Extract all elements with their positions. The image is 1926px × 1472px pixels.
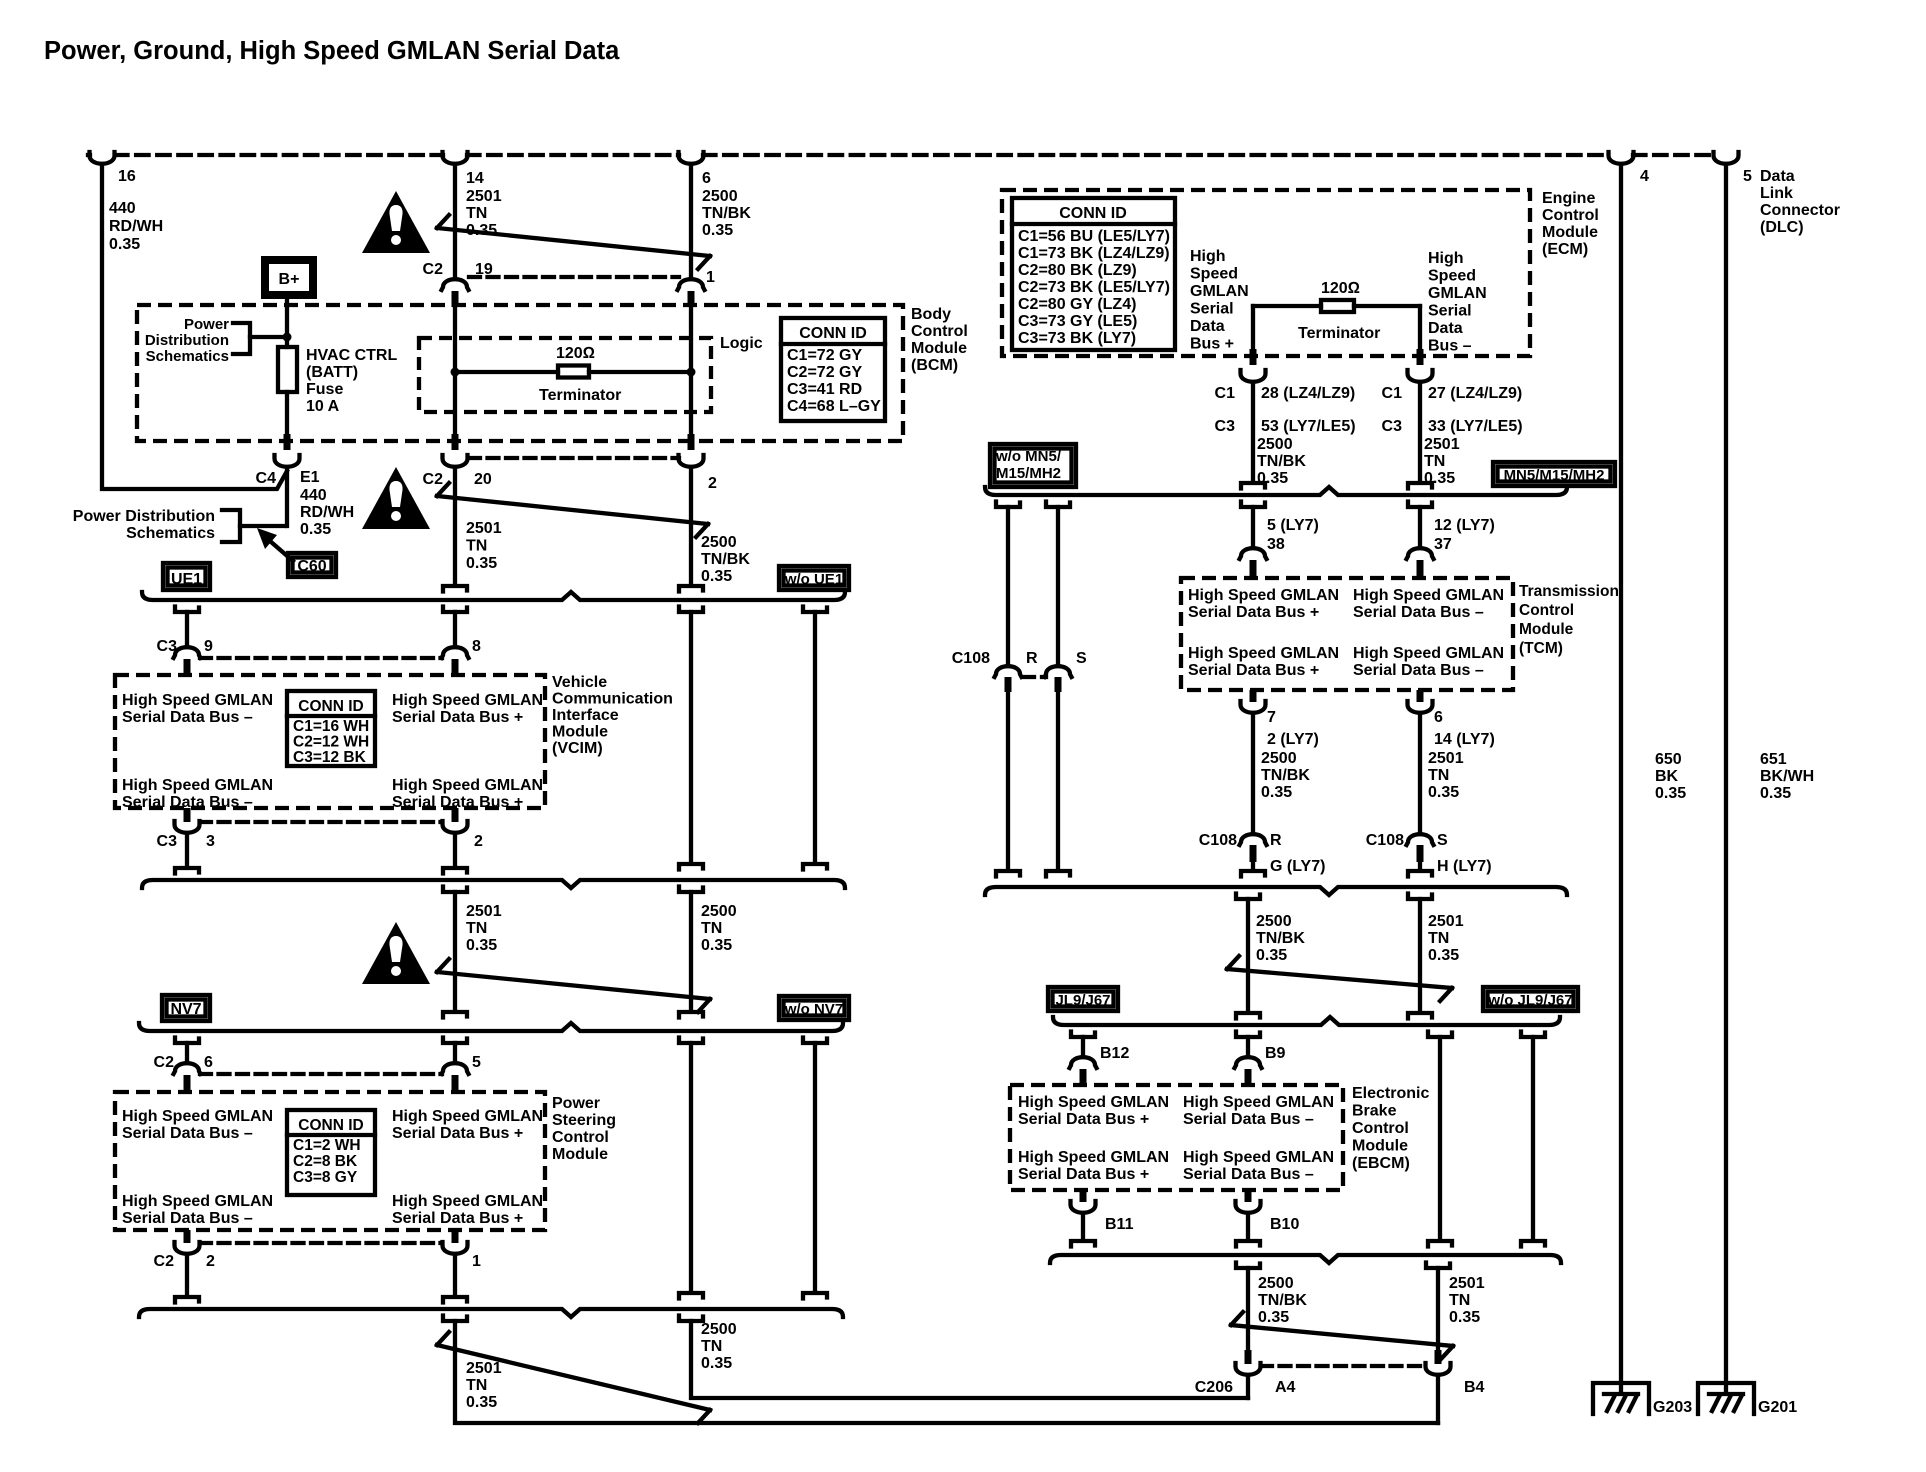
svg-text:0.35: 0.35: [1261, 784, 1292, 801]
svg-text:High Speed GMLAN: High Speed GMLAN: [122, 1193, 273, 1210]
svg-text:12 (LY7): 12 (LY7): [1434, 517, 1495, 534]
svg-text:C4: C4: [256, 470, 277, 487]
connector PSCM pin 1: [452, 1230, 459, 1243]
svg-text:Communication: Communication: [552, 691, 673, 708]
connector BCM C4/E1: [284, 434, 291, 450]
svg-text:Module: Module: [1352, 1138, 1408, 1155]
crossover arrow 2: [437, 483, 708, 537]
crossover arrow top (2501/2500 swap note): [437, 215, 710, 269]
svg-text:C2=72 GY: C2=72 GY: [787, 364, 862, 381]
svg-text:C3: C3: [157, 833, 178, 850]
svg-text:2501: 2501: [466, 903, 502, 920]
option box w/o UE1: [779, 566, 849, 590]
connector TCM pin 6: [1417, 690, 1424, 702]
svg-text:B10: B10: [1270, 1216, 1299, 1233]
wire B10 to bus: [1246, 1216, 1250, 1239]
connector BCM C2 pin 19: [442, 279, 469, 290]
svg-text:TN/BK: TN/BK: [1256, 930, 1305, 947]
svg-text:Bus +: Bus +: [1190, 336, 1234, 353]
svg-text:0.35: 0.35: [1428, 784, 1459, 801]
wire 2500 TN/BK pin2 to UE1 bus: [689, 470, 693, 582]
connector VCIM C3 pin 3: [184, 808, 191, 822]
svg-text:650: 650: [1655, 751, 1682, 768]
connector BCM pin 1: [678, 279, 705, 290]
connector PSCM C2 pin 6: [174, 1063, 201, 1074]
T-origin 2501 below EBCM bus: [1426, 1263, 1450, 1269]
svg-text:0.35: 0.35: [300, 521, 331, 538]
svg-text:C1=2 WH: C1=2 WH: [293, 1137, 361, 1154]
option box w/o NV7: [779, 996, 849, 1020]
svg-text:B9: B9: [1265, 1045, 1286, 1062]
svg-text:Module: Module: [552, 724, 608, 741]
wire pin1 to bus: [453, 1257, 457, 1293]
svg-text:Serial Data Bus –: Serial Data Bus –: [1353, 604, 1484, 621]
svg-text:BK: BK: [1655, 768, 1679, 785]
dotted connector link 20 to 2: [469, 456, 679, 460]
svg-text:C3=8 GY: C3=8 GY: [293, 1169, 358, 1186]
svg-text:High Speed GMLAN: High Speed GMLAN: [1183, 1149, 1334, 1166]
svg-text:Serial Data Bus +: Serial Data Bus +: [1018, 1166, 1149, 1183]
w/o MN5 rail 1 upper: [1006, 507, 1010, 665]
connector PSCM C2 pin 2: [184, 1230, 191, 1243]
option box w/o JL9/J67: [1483, 987, 1578, 1011]
BCM module dashed box: [137, 305, 903, 441]
svg-text:Serial Data Bus +: Serial Data Bus +: [392, 709, 523, 726]
crossover arrow 6 (EBCM outputs): [1231, 1312, 1453, 1359]
wire 2500 TN to A4 line: [691, 1321, 1248, 1398]
svg-text:High Speed GMLAN: High Speed GMLAN: [1188, 645, 1339, 662]
svg-text:(EBCM): (EBCM): [1352, 1155, 1410, 1172]
PSCM module dashed box: [115, 1092, 545, 1230]
connector TCM pin 7: [1250, 690, 1257, 702]
svg-text:TN/BK: TN/BK: [701, 551, 750, 568]
svg-text:Engine: Engine: [1542, 190, 1595, 207]
svg-text:Serial Data Bus –: Serial Data Bus –: [122, 1210, 253, 1227]
svg-text:Power: Power: [552, 1095, 600, 1112]
svg-text:1: 1: [706, 269, 715, 286]
svg-text:C2: C2: [423, 471, 444, 488]
svg-text:Speed: Speed: [1190, 266, 1238, 283]
svg-text:Schematics: Schematics: [146, 348, 229, 365]
svg-text:C1=16 WH: C1=16 WH: [293, 718, 369, 735]
T-origin 2500 below NV7 bottom bus: [679, 1316, 703, 1322]
T-origin 2501 below NV7 bottom bus: [443, 1316, 467, 1322]
svg-text:9: 9: [204, 638, 213, 655]
svg-text:High Speed GMLAN: High Speed GMLAN: [1183, 1094, 1334, 1111]
svg-text:28 (LZ4/LZ9): 28 (LZ4/LZ9): [1261, 385, 1355, 402]
svg-text:Serial Data Bus –: Serial Data Bus –: [1353, 662, 1484, 679]
connector PSCM pin 5: [442, 1063, 469, 1074]
wire TCM pin38 drop: [1251, 507, 1255, 546]
crossover arrow 3: [437, 959, 710, 1012]
T-origin below NV7 bus x=455: [443, 1038, 467, 1044]
svg-text:TN: TN: [466, 920, 487, 937]
svg-text:C4=68 L–GY: C4=68 L–GY: [787, 398, 881, 415]
svg-text:C2: C2: [154, 1054, 175, 1071]
svg-text:Terminator: Terminator: [1298, 325, 1380, 342]
svg-text:High Speed GMLAN: High Speed GMLAN: [1188, 587, 1339, 604]
svg-text:B4: B4: [1464, 1379, 1485, 1396]
svg-text:Serial Data Bus +: Serial Data Bus +: [1188, 604, 1319, 621]
T-origin below MN5 bus x=1058: [1046, 502, 1070, 508]
warning symbol 1: [362, 191, 430, 253]
T-origin below UE1 bus x=187: [175, 607, 199, 613]
NV7 bottom bus brace: [139, 1309, 843, 1317]
svg-text:0.35: 0.35: [466, 1394, 497, 1411]
svg-text:C2=80 BK (LZ9): C2=80 BK (LZ9): [1018, 262, 1137, 279]
svg-text:2500: 2500: [1256, 913, 1292, 930]
svg-text:High Speed GMLAN: High Speed GMLAN: [392, 1193, 543, 1210]
svg-text:B12: B12: [1100, 1045, 1129, 1062]
svg-text:E1: E1: [300, 469, 320, 486]
svg-text:(DLC): (DLC): [1760, 219, 1804, 236]
wire B4 down to 2501 line: [1436, 1378, 1440, 1423]
svg-text:Control: Control: [1519, 602, 1574, 619]
svg-text:C2=8 BK: C2=8 BK: [293, 1153, 358, 1170]
wire PSCM C2-6 drop: [185, 1043, 189, 1061]
svg-text:2501: 2501: [1449, 1275, 1485, 1292]
svg-text:440: 440: [300, 487, 327, 504]
connector BCM pin 2: [688, 434, 695, 450]
svg-text:High Speed GMLAN: High Speed GMLAN: [1018, 1094, 1169, 1111]
wire EBCM B9 drop: [1246, 1037, 1250, 1055]
connector pin 14 on top bus: [443, 152, 468, 164]
svg-text:TN: TN: [1428, 930, 1449, 947]
wire pin7 to C108: [1251, 716, 1255, 832]
svg-text:NV7: NV7: [170, 1001, 201, 1018]
w/o MN5 rail 2 upper: [1056, 507, 1060, 665]
svg-text:0.35: 0.35: [1428, 947, 1459, 964]
w/o MN5 rail 1 lower: [1006, 692, 1010, 869]
T-origin 2501 below MN5 bus: [1408, 894, 1432, 900]
svg-text:TN/BK: TN/BK: [702, 205, 751, 222]
svg-text:5: 5: [1743, 168, 1752, 185]
svg-text:53 (LY7/LE5): 53 (LY7/LE5): [1261, 418, 1356, 435]
svg-text:C108: C108: [952, 650, 990, 667]
option box JL9/J67: [1048, 987, 1118, 1011]
svg-text:Power, Ground, High Speed GMLA: Power, Ground, High Speed GMLAN Serial D…: [44, 37, 620, 65]
svg-text:Steering: Steering: [552, 1112, 616, 1129]
svg-text:G (LY7): G (LY7): [1270, 858, 1325, 875]
svg-text:High: High: [1190, 248, 1226, 265]
svg-text:w/o JL9/J67: w/o JL9/J67: [1487, 992, 1572, 1009]
svg-text:2: 2: [206, 1253, 215, 1270]
svg-text:33 (LY7/LE5): 33 (LY7/LE5): [1428, 418, 1523, 435]
UE1 top bus brace: [142, 592, 845, 600]
wire VCIM pin8 drop: [453, 612, 457, 645]
connector C108 R: [1240, 834, 1267, 845]
svg-text:Module: Module: [911, 340, 967, 357]
svg-text:2: 2: [474, 833, 483, 850]
T-origin 2501 below UE1 bottom bus: [443, 887, 467, 893]
svg-text:Serial: Serial: [1190, 301, 1234, 318]
junction dot at fuse wire: [283, 333, 292, 342]
svg-text:5 (LY7): 5 (LY7): [1267, 517, 1319, 534]
fuse HVAC CTRL 10A: [278, 347, 297, 392]
connector BCM C2 pin 20: [452, 434, 459, 450]
wire pin6 to C108: [1418, 716, 1422, 832]
svg-text:C2: C2: [154, 1253, 175, 1270]
svg-text:0.35: 0.35: [1256, 947, 1287, 964]
MN5 bottom bus brace: [985, 887, 1567, 895]
svg-text:Schematics: Schematics: [126, 525, 215, 542]
svg-text:C1: C1: [1382, 385, 1403, 402]
svg-text:Bus –: Bus –: [1428, 338, 1472, 355]
svg-text:High Speed GMLAN: High Speed GMLAN: [392, 1108, 543, 1125]
svg-text:2 (LY7): 2 (LY7): [1267, 731, 1319, 748]
T-origin below NV7 bus x=815: [803, 1038, 827, 1044]
svg-text:Serial Data Bus –: Serial Data Bus –: [1183, 1111, 1314, 1128]
T-origin below NV7 bus x=691: [679, 1038, 703, 1044]
svg-text:14: 14: [466, 170, 484, 187]
svg-text:Logic: Logic: [720, 335, 763, 352]
wire pin3 to bus: [185, 836, 189, 864]
bracket lower: [222, 510, 240, 542]
svg-text:Data: Data: [1428, 320, 1463, 337]
svg-text:6: 6: [204, 1054, 213, 1071]
svg-text:Serial Data Bus +: Serial Data Bus +: [1188, 662, 1319, 679]
svg-text:CONN ID: CONN ID: [298, 698, 363, 715]
svg-text:C3: C3: [157, 638, 178, 655]
svg-text:C1=56 BU (LE5/LY7): C1=56 BU (LE5/LY7): [1018, 228, 1170, 245]
connector pin 4 on top bus: [1609, 152, 1634, 164]
svg-text:High Speed GMLAN: High Speed GMLAN: [1018, 1149, 1169, 1166]
T-origin below UE1 bus x=455: [443, 607, 467, 613]
svg-text:10 A: 10 A: [306, 398, 340, 415]
svg-text:CONN ID: CONN ID: [799, 325, 867, 342]
svg-text:C3=41 RD: C3=41 RD: [787, 381, 862, 398]
svg-text:TN: TN: [1449, 1292, 1470, 1309]
svg-text:H (LY7): H (LY7): [1437, 858, 1492, 875]
wire E1 to power distribution: [285, 470, 289, 526]
svg-text:G201: G201: [1758, 1399, 1797, 1416]
option box w/o MN5/M15/MH2: [990, 444, 1076, 487]
svg-text:7: 7: [1267, 709, 1276, 726]
svg-text:TN: TN: [701, 1338, 722, 1355]
connector EBCM B12: [1070, 1057, 1097, 1068]
JL9 bottom bus brace: [1050, 1255, 1561, 1263]
warning symbol 2: [362, 467, 430, 529]
svg-text:4: 4: [1640, 168, 1649, 185]
svg-text:MN5/M15/MH2: MN5/M15/MH2: [1504, 467, 1605, 484]
connector EBCM B11: [1080, 1190, 1087, 1202]
w/o JL9 rail 2: [1531, 1037, 1535, 1239]
svg-text:C108: C108: [1366, 832, 1404, 849]
svg-text:37: 37: [1434, 536, 1452, 553]
svg-text:UE1: UE1: [171, 571, 202, 588]
wire 2501 TN to B4 line: [455, 1321, 1438, 1423]
wire through BCM x691: [689, 307, 693, 434]
svg-text:CONN ID: CONN ID: [1059, 205, 1127, 222]
T-origin below UE1 bus x=691: [679, 607, 703, 613]
svg-text:19: 19: [475, 261, 493, 278]
svg-text:0.35: 0.35: [109, 236, 140, 253]
wire pin2 to bus: [185, 1257, 189, 1293]
svg-text:Serial Data Bus +: Serial Data Bus +: [1018, 1111, 1149, 1128]
svg-text:2500: 2500: [701, 1321, 737, 1338]
connector VCIM C3 pin 9: [174, 647, 201, 658]
BCM CONN ID table: [781, 318, 885, 421]
PSCM CONN ID table: [287, 1110, 375, 1195]
ground G201: [1698, 1383, 1754, 1414]
connector pin 5 on top bus: [1714, 152, 1739, 164]
svg-text:Interface: Interface: [552, 707, 619, 724]
wire VCIM pin9 drop: [185, 612, 189, 645]
wire B11 to bus: [1081, 1216, 1085, 1239]
svg-text:2500: 2500: [1258, 1275, 1294, 1292]
svg-text:2501: 2501: [1428, 750, 1464, 767]
T-origin 2500 below EBCM bus: [1236, 1263, 1260, 1269]
w/o UE1 rail 2: [813, 612, 817, 862]
C60 label box: [288, 553, 336, 577]
option box NV7: [162, 995, 210, 1021]
T-origin below UE1 bus x=815: [803, 607, 827, 613]
svg-text:CONN ID: CONN ID: [298, 1117, 363, 1134]
svg-text:Module: Module: [1542, 224, 1598, 241]
svg-text:Body: Body: [911, 306, 951, 323]
svg-text:TN: TN: [466, 1377, 487, 1394]
svg-text:2500: 2500: [1257, 436, 1293, 453]
svg-text:TN/BK: TN/BK: [1257, 453, 1306, 470]
svg-text:Serial Data Bus +: Serial Data Bus +: [392, 1210, 523, 1227]
svg-text:(BCM): (BCM): [911, 357, 958, 374]
svg-text:8: 8: [472, 638, 481, 655]
svg-text:Control: Control: [1352, 1120, 1409, 1137]
svg-text:Electronic: Electronic: [1352, 1085, 1429, 1102]
svg-text:C2: C2: [423, 261, 444, 278]
svg-text:Module: Module: [552, 1146, 608, 1163]
svg-text:w/o NV7: w/o NV7: [784, 1001, 843, 1018]
svg-text:Transmission: Transmission: [1519, 583, 1619, 600]
BCM Logic dashed box: [419, 338, 711, 412]
option box MN5/M15/MH2: [1493, 462, 1615, 486]
svg-text:Data: Data: [1190, 318, 1225, 335]
svg-text:2: 2: [708, 475, 717, 492]
svg-text:Serial Data Bus –: Serial Data Bus –: [122, 1125, 253, 1142]
svg-text:Serial Data Bus +: Serial Data Bus +: [392, 1125, 523, 1142]
junction dots terminator: [451, 368, 460, 377]
T-origin below MN5 bus x=1253: [1241, 502, 1265, 508]
svg-text:S: S: [1076, 650, 1087, 667]
svg-text:2501: 2501: [1424, 436, 1460, 453]
svg-text:High Speed GMLAN: High Speed GMLAN: [1353, 645, 1504, 662]
svg-text:Fuse: Fuse: [306, 381, 343, 398]
connector ECM C1/C3 right: [1417, 349, 1424, 365]
option box UE1: [163, 563, 210, 590]
VCIM CONN ID table: [287, 691, 375, 766]
svg-text:0.35: 0.35: [1760, 785, 1791, 802]
wire fuse to BCM bottom: [285, 392, 289, 441]
connector TCM pin 38: [1240, 548, 1267, 559]
svg-text:Vehicle: Vehicle: [552, 674, 607, 691]
ground wire 650 BK: [1619, 167, 1623, 1392]
svg-text:20: 20: [474, 471, 492, 488]
svg-text:B11: B11: [1105, 1216, 1134, 1233]
wire ECM right to MN5 bus: [1418, 385, 1422, 479]
svg-text:M15/MH2: M15/MH2: [996, 465, 1061, 482]
T-origin below MN5 bus x=1420: [1408, 502, 1432, 508]
svg-text:High: High: [1428, 250, 1464, 267]
ECM module dashed box: [1002, 190, 1530, 356]
ECM CONN ID table: [1012, 198, 1175, 350]
wire A4 down to 2500 line: [1246, 1378, 1250, 1398]
svg-text:0.35: 0.35: [466, 555, 497, 572]
TCM module dashed box: [1181, 578, 1513, 690]
svg-text:A4: A4: [1275, 1379, 1296, 1396]
svg-text:(ECM): (ECM): [1542, 241, 1588, 258]
svg-text:w/o MN5/: w/o MN5/: [995, 448, 1062, 465]
svg-text:Speed: Speed: [1428, 268, 1476, 285]
svg-text:R: R: [1270, 832, 1282, 849]
svg-text:2501: 2501: [1428, 913, 1464, 930]
MN5 top bus brace: [985, 487, 1567, 495]
svg-text:Serial Data Bus –: Serial Data Bus –: [1183, 1166, 1314, 1183]
svg-text:120Ω: 120Ω: [1321, 280, 1360, 297]
svg-text:C206: C206: [1195, 1379, 1233, 1396]
T-origin below JL9 bus x=1533: [1521, 1032, 1545, 1038]
svg-text:w/o UE1: w/o UE1: [784, 571, 843, 588]
svg-text:27 (LZ4/LZ9): 27 (LZ4/LZ9): [1428, 385, 1522, 402]
svg-text:B+: B+: [279, 271, 300, 288]
warning symbol 3: [362, 922, 430, 984]
wire 440 RD/WH from pin16 down and right to C4: [102, 166, 287, 489]
connector VCIM pin 2: [452, 808, 459, 822]
BCM terminator resistor 120 ohm: [455, 370, 558, 374]
svg-text:C2=80 GY (LZ4): C2=80 GY (LZ4): [1018, 296, 1136, 313]
T-origin 2500 below MN5 bus: [1236, 894, 1260, 900]
connector EBCM B9: [1235, 1057, 1262, 1068]
svg-text:Data: Data: [1760, 168, 1795, 185]
dotted link C108 R-S: [1024, 675, 1046, 679]
svg-text:C2=12 WH: C2=12 WH: [293, 734, 369, 751]
svg-text:TN: TN: [701, 920, 722, 937]
svg-text:GMLAN: GMLAN: [1190, 283, 1249, 300]
wire through BCM x455: [453, 307, 457, 434]
svg-text:(VCIM): (VCIM): [552, 740, 603, 757]
svg-text:Serial Data Bus –: Serial Data Bus –: [122, 709, 253, 726]
svg-text:JL9/J67: JL9/J67: [1055, 992, 1110, 1009]
w/o MN5 rail 2 lower: [1056, 692, 1060, 869]
svg-text:GMLAN: GMLAN: [1428, 285, 1487, 302]
connector C206 A4: [1245, 1350, 1252, 1364]
svg-text:High Speed GMLAN: High Speed GMLAN: [122, 1108, 273, 1125]
svg-text:C1=73 BK (LZ4/LZ9): C1=73 BK (LZ4/LZ9): [1018, 245, 1170, 262]
C60 splice arrow: [257, 528, 293, 561]
svg-text:3: 3: [206, 833, 215, 850]
connector EBCM B10: [1245, 1190, 1252, 1202]
T-origin below JL9 bus x=1248: [1236, 1032, 1260, 1038]
wire TCM pin37 drop: [1418, 507, 1422, 546]
T-origin below MN5 bus x=1008: [996, 502, 1020, 508]
svg-text:C1: C1: [1215, 385, 1236, 402]
svg-text:0.35: 0.35: [701, 568, 732, 585]
svg-text:High Speed GMLAN: High Speed GMLAN: [392, 777, 543, 794]
wire 2501 TN to NV7 bus: [453, 892, 457, 1008]
T-origin 2500 below UE1 bottom bus: [679, 887, 703, 893]
connector pin 16 on top bus: [90, 152, 115, 164]
ground wire 651 BK/WH: [1724, 167, 1728, 1392]
dotted link A4-B4: [1261, 1364, 1425, 1368]
svg-text:C3: C3: [1215, 418, 1236, 435]
svg-text:5: 5: [472, 1054, 481, 1071]
svg-text:C3=73 GY (LE5): C3=73 GY (LE5): [1018, 313, 1137, 330]
NV7 top bus brace: [139, 1023, 843, 1031]
svg-text:Module: Module: [1519, 621, 1574, 638]
crossover arrow 4: [437, 1332, 710, 1423]
dotted connector link 9-8: [200, 656, 442, 660]
svg-text:0.35: 0.35: [702, 222, 733, 239]
svg-text:S: S: [1437, 832, 1448, 849]
